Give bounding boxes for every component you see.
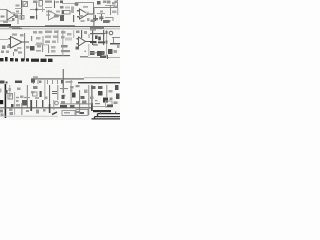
label	[20, 34, 24, 37]
contact	[77, 111, 80, 113]
wire	[0, 9, 7, 10]
dark slant	[52, 112, 57, 115]
bus drop	[115, 112, 116, 115]
supply rail	[0, 26, 120, 27]
wire	[91, 85, 92, 110]
stub	[95, 103, 100, 104]
cluster labels	[33, 86, 38, 89]
op-amp U2	[11, 37, 30, 49]
wire	[93, 8, 94, 26]
label	[98, 86, 103, 89]
wire	[15, 8, 22, 9]
label R4	[45, 1, 52, 3]
wire	[36, 3, 37, 15]
label	[51, 46, 56, 49]
wire dark	[49, 104, 51, 113]
dashes	[16, 97, 19, 98]
node blob	[61, 80, 64, 84]
wire	[113, 38, 114, 44]
label	[76, 101, 79, 104]
wire	[45, 7, 52, 8]
label	[26, 46, 30, 49]
wire	[63, 69, 64, 93]
wire	[42, 7, 43, 12]
op-amp U1	[7, 10, 18, 24]
wire	[60, 103, 92, 104]
wire	[71, 80, 72, 104]
label	[100, 56, 106, 59]
label	[45, 97, 48, 100]
capacitor C5	[84, 31, 87, 34]
wire	[105, 30, 108, 57]
label	[87, 18, 90, 21]
wire	[35, 43, 49, 46]
input marks	[77, 38, 79, 40]
wire	[92, 30, 93, 45]
label	[90, 29, 96, 31]
label	[112, 2, 116, 5]
dashes	[66, 81, 73, 83]
label	[37, 45, 41, 48]
label	[9, 109, 13, 112]
label	[46, 11, 52, 13]
dark box C	[103, 98, 108, 103]
contact	[80, 112, 84, 114]
label	[36, 43, 44, 45]
heavy wire	[110, 43, 120, 45]
diode D1	[39, 1, 43, 7]
label	[16, 11, 19, 13]
label	[114, 102, 118, 105]
label	[16, 100, 19, 102]
trimmer VR1	[23, 2, 28, 7]
label OUT	[0, 24, 11, 27]
dark box	[98, 91, 103, 96]
wire	[49, 85, 50, 106]
label	[108, 20, 111, 22]
label	[17, 47, 22, 49]
bus drop	[100, 112, 101, 115]
node	[85, 51, 87, 53]
label rows	[45, 31, 52, 34]
wire	[13, 92, 16, 115]
label	[17, 88, 21, 91]
label	[91, 86, 96, 89]
label	[56, 11, 60, 13]
label K	[76, 47, 80, 50]
label	[61, 101, 65, 104]
label	[1, 114, 4, 117]
label	[61, 45, 68, 48]
black pad	[0, 100, 3, 104]
label	[20, 96, 24, 99]
wire	[72, 30, 75, 38]
component	[102, 51, 105, 55]
label	[14, 49, 18, 52]
ticks below rail	[33, 80, 58, 84]
box corner	[94, 7, 105, 9]
wire	[57, 85, 58, 100]
dark bar	[30, 100, 32, 111]
label	[54, 15, 59, 18]
wire	[0, 20, 12, 23]
label	[114, 50, 118, 53]
label	[16, 5, 20, 7]
label	[71, 7, 74, 14]
op-amp U4	[79, 37, 95, 46]
wire	[116, 8, 119, 15]
label	[61, 31, 66, 34]
label	[39, 31, 43, 34]
resistor R10	[112, 11, 117, 14]
bus wire 2	[95, 116, 121, 118]
resistor R7	[60, 6, 64, 9]
bus corner 2	[94, 117, 96, 119]
label	[79, 15, 83, 17]
wire	[93, 2, 94, 14]
dashes	[24, 97, 28, 98]
wire	[88, 85, 89, 115]
dark bar	[42, 100, 43, 107]
resistor R9	[113, 6, 117, 9]
label	[0, 89, 2, 93]
component T2	[98, 37, 101, 41]
bus corner 1	[97, 114, 99, 117]
bus wire 3	[92, 118, 121, 120]
tick	[13, 52, 14, 56]
wire	[48, 45, 49, 53]
label	[12, 18, 15, 21]
wire	[21, 103, 22, 115]
label	[35, 97, 39, 99]
capacitor C6	[52, 92, 57, 94]
box	[76, 110, 88, 116]
label	[97, 1, 101, 5]
dark blob	[115, 85, 119, 90]
capacitor C4	[93, 15, 98, 21]
wire	[105, 18, 113, 22]
wire	[36, 100, 37, 107]
label	[70, 86, 74, 89]
label	[81, 20, 85, 22]
top rail of lower circuit	[31, 78, 84, 79]
relay box	[62, 111, 75, 116]
dark blob	[11, 104, 14, 107]
terminal box	[106, 101, 113, 107]
label cluster	[103, 20, 110, 23]
dark blob	[31, 80, 35, 83]
tick	[95, 100, 98, 101]
label	[100, 11, 103, 13]
wire	[30, 9, 45, 10]
faint line	[0, 115, 58, 118]
component	[97, 51, 102, 56]
dark bar	[91, 103, 93, 111]
label	[10, 112, 14, 115]
wire	[61, 30, 64, 56]
rail segment	[0, 27, 30, 30]
wire	[87, 44, 90, 56]
bottom rail	[0, 107, 92, 108]
heavy rail	[78, 82, 120, 83]
wire	[105, 5, 115, 6]
tick	[107, 55, 108, 59]
label	[9, 88, 12, 91]
wire feedback	[76, 2, 93, 3]
label	[99, 17, 103, 20]
label	[82, 101, 87, 105]
node	[36, 9, 38, 11]
resistor R6	[46, 14, 50, 16]
marks above rail	[33, 76, 38, 78]
label	[7, 46, 10, 49]
label	[65, 38, 72, 41]
component on bus	[5, 90, 8, 94]
heavy band	[93, 110, 111, 112]
label	[70, 105, 75, 108]
caption figure 2	[0, 81, 22, 84]
wire	[60, 88, 68, 89]
capacitor C7	[100, 14, 104, 21]
heavy band	[90, 41, 97, 43]
op-amp U3	[80, 9, 94, 19]
faint rail	[84, 76, 120, 79]
heavy band 2	[98, 41, 105, 43]
capacitor C2	[20, 16, 24, 20]
resistor R12	[31, 36, 32, 41]
capacitor C1	[11, 12, 15, 14]
blob	[106, 31, 108, 34]
dark blob	[81, 96, 85, 99]
component	[93, 44, 97, 46]
connector	[55, 101, 59, 105]
resistor pair	[72, 93, 76, 98]
label	[26, 110, 29, 112]
label	[1, 51, 4, 54]
component T1	[95, 36, 98, 40]
bus wire 1	[98, 113, 121, 115]
wire	[9, 27, 20, 28]
small box	[8, 94, 13, 100]
wire	[53, 100, 54, 110]
small box	[33, 92, 38, 96]
label	[9, 94, 12, 97]
label	[110, 98, 113, 101]
wire	[62, 3, 75, 4]
resistor R5	[54, 1, 55, 9]
wire	[27, 85, 28, 108]
box top	[93, 106, 113, 108]
label	[18, 52, 22, 54]
wire	[8, 85, 11, 100]
wire	[73, 15, 74, 22]
label	[76, 85, 80, 87]
wire	[36, 15, 37, 20]
label	[61, 36, 65, 39]
rail heavy segment	[45, 25, 75, 27]
label	[43, 109, 46, 112]
wire	[81, 30, 82, 38]
label	[67, 33, 72, 36]
label	[56, 1, 60, 3]
wire	[106, 85, 107, 97]
label	[70, 90, 73, 92]
label	[60, 1, 63, 4]
wire	[42, 45, 43, 52]
wire	[117, 0, 118, 8]
input marks	[77, 10, 79, 12]
label	[83, 6, 88, 8]
stub	[28, 97, 30, 99]
wire	[89, 34, 90, 38]
IC socket	[62, 11, 70, 15]
label	[16, 104, 20, 107]
label block	[33, 1, 38, 4]
label	[84, 90, 88, 94]
resistor R3	[15, 16, 19, 19]
input marks	[9, 38, 12, 40]
dark band	[60, 105, 67, 108]
label	[39, 81, 42, 84]
component S1	[60, 15, 64, 21]
label	[76, 31, 80, 34]
label	[2, 46, 6, 50]
wire	[90, 33, 105, 34]
dark cluster	[22, 100, 27, 106]
label	[91, 20, 96, 23]
label	[36, 37, 41, 40]
blob	[62, 95, 65, 99]
wire	[90, 52, 105, 53]
label	[31, 91, 35, 94]
pot VR2	[90, 51, 95, 55]
caption figure 1	[0, 57, 53, 62]
label	[1, 16, 5, 18]
op-amp U5	[49, 11, 62, 21]
label	[61, 50, 70, 52]
label cluster	[15, 15, 18, 18]
label	[0, 110, 3, 113]
dashes	[80, 56, 88, 58]
wire	[103, 30, 104, 45]
resistor R2	[15, 13, 21, 14]
capacitor C3	[54, 15, 59, 18]
label	[115, 1, 119, 4]
wire	[45, 55, 70, 56]
resistor R13	[36, 50, 41, 52]
resistor R1	[3, 21, 8, 23]
rail dashes left	[12, 28, 22, 29]
boundary wire	[88, 57, 120, 58]
resistor R8	[65, 7, 70, 9]
wire	[94, 7, 117, 9]
label	[86, 12, 90, 14]
label	[107, 1, 111, 4]
dark text	[107, 105, 113, 108]
component	[108, 49, 113, 54]
wire	[24, 33, 25, 60]
transistor Q1	[75, 2, 79, 6]
dashes	[62, 95, 66, 97]
label	[103, 1, 107, 4]
contacts	[64, 112, 70, 114]
wire	[110, 5, 111, 15]
label	[117, 45, 120, 48]
left bus bar	[5, 84, 7, 118]
label	[36, 110, 39, 114]
resistor R11	[30, 16, 35, 19]
dark component	[40, 91, 42, 97]
wire	[112, 37, 120, 39]
wire	[97, 13, 105, 14]
label row	[12, 34, 17, 36]
blob	[106, 41, 108, 44]
label	[33, 31, 37, 34]
wire	[43, 36, 44, 42]
wire	[56, 30, 59, 43]
lamp LP1	[109, 31, 113, 35]
wire	[79, 90, 80, 114]
rail dashes	[90, 27, 104, 28]
label	[90, 97, 94, 100]
label	[6, 51, 9, 54]
label	[51, 50, 56, 53]
dark box	[30, 46, 35, 51]
label	[109, 90, 113, 93]
wire	[21, 0, 22, 20]
wire	[43, 80, 46, 100]
supply rail lower	[0, 27, 120, 30]
wire	[0, 39, 8, 40]
dark blob	[116, 94, 120, 100]
label	[93, 44, 98, 46]
